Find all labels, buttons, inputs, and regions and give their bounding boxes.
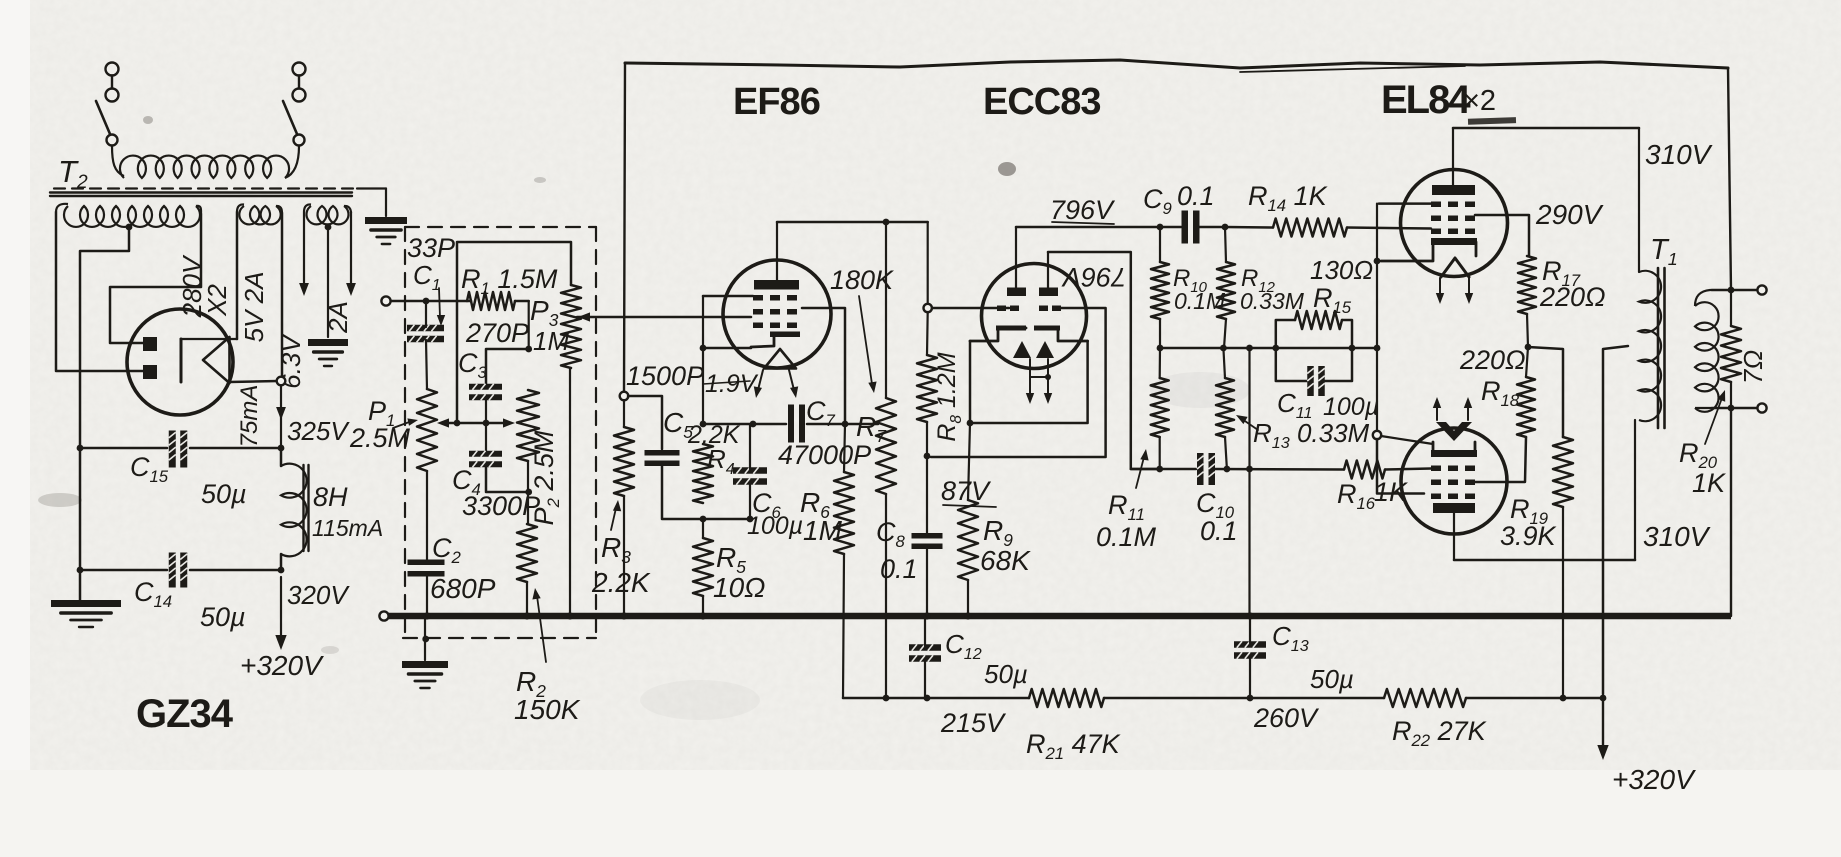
bus junction x703 — [699, 612, 706, 619]
wire R18 top — [1526, 347, 1528, 377]
svg-text:100µ: 100µ — [747, 512, 803, 540]
label R10 — [1173, 265, 1208, 296]
label 260V — [1253, 703, 1320, 733]
wire C8 to bus — [926, 549, 928, 616]
potentiometer P2 2.5M — [517, 390, 539, 461]
label 2.5M (P1) — [349, 423, 411, 453]
T1 secondary winding — [1695, 290, 1719, 412]
feedback node — [620, 392, 629, 401]
label 270P — [465, 318, 529, 348]
node wiper/P3 — [454, 420, 461, 427]
EL84-2 g3 link — [1377, 439, 1424, 494]
label EL84 x2 — [1381, 78, 1496, 122]
6.3V heater feed left — [299, 212, 309, 296]
label R14 1K — [1248, 181, 1328, 215]
resistor R22 27K — [1384, 689, 1466, 707]
svg-text:2.5M: 2.5M — [349, 423, 411, 453]
node R4 top — [700, 421, 707, 428]
label 3.9K — [1500, 521, 1557, 551]
label C12 — [945, 629, 982, 663]
label R11 — [1108, 490, 1145, 524]
svg-text:EL84: EL84 — [1381, 78, 1471, 122]
resistor R9 68K — [958, 500, 978, 580]
wire R11 top — [1159, 348, 1162, 378]
resistor R12 0.33M — [1217, 262, 1235, 319]
bus junction x427 — [423, 612, 430, 619]
label R22 27K — [1392, 716, 1487, 750]
svg-text:47000P: 47000P — [778, 440, 871, 470]
6.3V center tap — [325, 224, 332, 337]
resistor R3 2.2K — [614, 427, 634, 496]
label R3 — [601, 532, 631, 567]
ground stub (box) — [422, 616, 429, 660]
potentiometer P1 2.5M — [417, 389, 437, 471]
label 325V — [287, 416, 350, 446]
output node top — [1728, 287, 1735, 294]
cathode bias line — [1160, 347, 1378, 350]
label P3 — [530, 295, 559, 330]
svg-text:1500P: 1500P — [626, 361, 704, 391]
label R12 — [1241, 265, 1276, 296]
label 0.1 (C10) — [1200, 516, 1238, 546]
capacitor C8 0.1 — [912, 533, 943, 549]
label T2 — [58, 154, 88, 193]
label 68K — [980, 545, 1031, 576]
svg-text:1K: 1K — [1692, 468, 1726, 498]
plate1 to T1 — [1638, 128, 1640, 272]
input wire — [391, 298, 471, 305]
resistor R5 10ohm — [693, 538, 713, 596]
label 0.1M (R10) — [1174, 288, 1226, 314]
svg-text:50µ: 50µ — [200, 602, 246, 632]
svg-text:R14 1K: R14 1K — [1248, 181, 1328, 215]
wire C9 right — [1199, 224, 1229, 231]
label 220ohm (R18) — [1459, 345, 1526, 375]
svg-text:1M: 1M — [533, 326, 569, 356]
svg-text:0.1M: 0.1M — [1096, 522, 1157, 552]
label 0.33M (R12) — [1240, 288, 1305, 314]
label 6.3V — [276, 333, 306, 389]
label R13 0.33M — [1253, 418, 1370, 452]
EL84-1 plate wire — [1452, 128, 1454, 185]
ground (6.3V center) — [308, 339, 348, 366]
svg-text:+320V: +320V — [1612, 764, 1696, 795]
wire screens to R19 — [1528, 347, 1563, 437]
capacitor C12 50u — [909, 644, 941, 662]
svg-text:130Ω: 130Ω — [1310, 255, 1373, 285]
wire P2 to R2 — [525, 461, 532, 524]
EF86 screen wire — [802, 308, 845, 424]
EF86 cathode line — [700, 345, 751, 352]
output node bottom — [1728, 405, 1735, 412]
wire to 7ohm — [1730, 290, 1732, 326]
label C8 — [876, 517, 906, 551]
wire R1 to junction — [515, 301, 529, 349]
wire R6 to HT rail — [843, 554, 844, 698]
label 290V — [1535, 199, 1604, 230]
label 50u (C13) — [1310, 664, 1354, 694]
label 215V — [940, 708, 1007, 738]
796V plate line — [1016, 224, 1181, 231]
bus junction x968 — [964, 612, 971, 619]
box A plate2-grid loop — [1048, 252, 1157, 469]
svg-text:50µ: 50µ — [984, 659, 1028, 689]
wire C3 link — [486, 349, 529, 384]
C13 riser — [1246, 348, 1253, 616]
label smudge — [1468, 117, 1516, 125]
svg-text:50µ: 50µ — [1310, 664, 1354, 694]
label R17 — [1542, 256, 1581, 290]
capacitor C3 270P — [469, 384, 502, 401]
wire R17 bottom — [1527, 314, 1528, 347]
bias line junction x1352 — [1349, 345, 1356, 352]
wire cathode to R9 — [968, 423, 970, 500]
wire screen node to R7 tap — [845, 423, 878, 426]
power pentode V4 EL84 (inverted) — [1401, 422, 1507, 534]
wire C13 to rail — [1249, 657, 1251, 698]
label C11 — [1277, 388, 1313, 422]
EL84-1 screen line — [1475, 215, 1529, 256]
wire C9 to R14 — [1225, 226, 1273, 229]
wire C2 to bus — [426, 574, 428, 616]
node 320V — [278, 567, 285, 574]
arrow C1 label — [437, 288, 445, 326]
svg-text:33P: 33P — [407, 233, 455, 263]
node R4 bottom — [700, 516, 707, 523]
resistor R13 0.33M — [1216, 378, 1234, 437]
wire cathode to 325V node — [276, 386, 286, 448]
label R4 — [707, 444, 735, 478]
svg-text:×2: ×2 — [1463, 85, 1496, 117]
wire wiper to P3 top — [457, 242, 571, 423]
bias line junction x1249.5 — [1246, 345, 1253, 352]
label C14 — [134, 577, 172, 611]
wire P3 to bus — [569, 368, 571, 616]
label 220ohm (R17) — [1539, 282, 1606, 312]
label C6 — [752, 488, 782, 522]
svg-text:290V: 290V — [1535, 199, 1604, 230]
svg-text:0.1: 0.1 — [1200, 516, 1238, 546]
label 1K (R20) — [1692, 468, 1726, 498]
svg-text:50µ: 50µ — [201, 479, 247, 509]
capacitor C2 680P — [408, 560, 445, 577]
label R5 — [716, 542, 746, 577]
transformer T2 core — [50, 189, 357, 197]
dashed screen box — [403, 227, 596, 638]
capacitor C7 47000P — [788, 405, 805, 443]
label 115mA — [312, 515, 383, 541]
label R1 1.5M — [461, 264, 558, 298]
capacitor C1 33P — [407, 325, 444, 343]
label 50u (C14) — [200, 602, 246, 632]
T1 center tap — [1603, 346, 1628, 694]
resistor R21 47K — [1029, 689, 1104, 707]
output terminal top — [1731, 285, 1767, 294]
rail junction 260V — [1247, 695, 1254, 702]
svg-text:75mA: 75mA — [236, 385, 263, 448]
ECC83 heater arrows — [1026, 359, 1052, 404]
EL84-2 cathode link — [1381, 436, 1433, 444]
resistor R18 220ohm — [1517, 377, 1535, 437]
label C3 — [458, 348, 488, 382]
node 325V — [278, 445, 285, 452]
box right edge — [1728, 68, 1731, 290]
node R1/C3/P2 — [525, 346, 532, 353]
+320V arrow (right) — [1597, 698, 1608, 760]
wire R8node to C8 — [926, 457, 928, 533]
ground (core) — [365, 217, 407, 244]
EL84-2 plate wire — [1453, 513, 1455, 560]
wire C7 to screen node — [807, 421, 848, 428]
label R20 — [1679, 438, 1718, 472]
EL84-1 heater arrows — [1436, 278, 1473, 304]
capacitor C5 1500P — [645, 450, 680, 466]
label 796V — [1050, 195, 1116, 225]
wiper line arrows — [437, 418, 515, 427]
HT rail 215V-260V segment — [843, 697, 1603, 700]
feedback line left (box edge) — [624, 63, 625, 392]
resistor R6 1M — [834, 472, 854, 554]
wire R7 to HT rail — [885, 494, 887, 698]
wire core to ground — [357, 189, 386, 217]
resistor R10 0.1M — [1151, 262, 1169, 319]
bus junction x927 — [923, 612, 930, 619]
ECC83 cathode box — [970, 341, 1088, 423]
label R7 — [856, 411, 887, 446]
wire R9 to bus — [967, 580, 969, 616]
cathode tie vertical — [1374, 204, 1381, 431]
main ground bus — [389, 613, 1731, 620]
label 2.2K (R4) — [687, 421, 741, 449]
bus junction x1250 — [1246, 612, 1253, 619]
svg-text:320V: 320V — [287, 580, 350, 610]
label 8H — [313, 482, 348, 512]
grid2 drive line — [1131, 466, 1196, 473]
bias line junction x1223.4 — [1220, 345, 1227, 352]
resistor R17 220ohm — [1518, 256, 1536, 314]
EF86 grid line from P3 — [577, 312, 751, 321]
EL84-1 g3 line — [1379, 202, 1431, 205]
svg-text:0.1M: 0.1M — [1174, 288, 1226, 314]
rail junction +320V — [1600, 695, 1607, 702]
wire C15 to ground rail — [77, 445, 167, 452]
svg-text:68K: 68K — [980, 545, 1031, 576]
bus junction x527 — [523, 612, 530, 619]
capacitor C9 0.1 — [1182, 211, 1200, 244]
arrow R2 label — [532, 588, 546, 662]
bus junction x624 — [620, 612, 627, 619]
wire R6 top — [844, 424, 845, 472]
resistor R11 0.1M — [1151, 378, 1169, 437]
wire R18 to grid2 — [1475, 437, 1526, 482]
capacitor C10 0.1 — [1197, 453, 1215, 485]
EF86 plate wire — [776, 222, 778, 280]
transformer T2 6.3V winding — [304, 204, 351, 224]
bus input terminal — [379, 611, 388, 620]
label 7ohm (rotated) — [1738, 350, 1768, 384]
svg-text:3.9K: 3.9K — [1500, 521, 1557, 551]
svg-text:325V: 325V — [287, 416, 350, 446]
svg-text:GZ34: GZ34 — [136, 692, 234, 736]
wire output gnd to bus — [1730, 408, 1732, 616]
wire C12 to rail — [924, 660, 926, 698]
label C15 — [130, 452, 169, 486]
label 1500P — [626, 361, 704, 391]
wire R8 bottom — [926, 422, 928, 455]
wire node to R3 — [623, 400, 625, 427]
choke 8H 115mA — [281, 464, 309, 557]
svg-text:115mA: 115mA — [312, 515, 383, 541]
label +320V (left) — [240, 650, 324, 681]
node screens — [1525, 344, 1532, 351]
label 0.1 (C8) — [880, 554, 918, 584]
label R21 47K — [1026, 729, 1121, 763]
EL84-2 plate line — [1454, 559, 1635, 562]
resistor R16 1K — [1344, 461, 1385, 479]
svg-text:5V 2A: 5V 2A — [239, 272, 269, 343]
wire wiper to C4 — [485, 423, 487, 451]
label 0.1 (C9) — [1177, 181, 1215, 211]
label R2 — [516, 666, 546, 701]
node R8 bottom — [924, 453, 931, 460]
label 280V X2 — [177, 254, 232, 318]
label C2 — [432, 533, 462, 567]
potentiometer P3 1M — [561, 285, 581, 368]
svg-text:215V: 215V — [940, 708, 1007, 738]
svg-text:270P: 270P — [465, 318, 529, 348]
label C7 — [806, 396, 836, 430]
label R19 — [1510, 494, 1548, 528]
label C5 — [663, 407, 693, 442]
paper smudges (decor) — [38, 116, 1250, 720]
mains switch S1/S2 — [96, 63, 306, 146]
label 3300P — [462, 491, 540, 521]
svg-text:260V: 260V — [1253, 703, 1320, 733]
svg-text:R22 27K: R22 27K — [1392, 716, 1487, 750]
wire HV left to plate — [56, 212, 143, 371]
wire to C7 — [703, 421, 786, 428]
EL84-2 heater arrows — [1433, 397, 1472, 420]
label C9 — [1143, 184, 1172, 218]
bias line junction x1160 — [1157, 345, 1164, 352]
EF86 g3 line — [703, 295, 753, 298]
capacitor C15 50u — [169, 431, 188, 468]
cathode output node 325V — [277, 377, 286, 386]
node EF86/ECC83 grid — [924, 304, 932, 312]
wire C10 to R16 — [1214, 466, 1344, 473]
svg-text:+320V: +320V — [240, 650, 324, 681]
EF86 plate line — [777, 219, 928, 226]
label C13 — [1272, 621, 1309, 655]
ECC83 left plate wire — [1015, 227, 1017, 288]
wire R7 top — [885, 222, 887, 398]
label 33P — [407, 233, 455, 263]
label 680P — [430, 573, 496, 604]
label ECC83 — [983, 81, 1101, 123]
pentode V1 EF86 — [723, 260, 831, 369]
label R9 — [983, 515, 1013, 550]
T1 core — [1658, 268, 1665, 428]
label 100u (C6) — [747, 512, 803, 540]
EF86 g3-cathode vertical — [702, 296, 704, 424]
transformer T2 5V winding — [237, 204, 282, 224]
rail junction C12 — [924, 695, 931, 702]
label 150K — [514, 694, 581, 725]
label 0.1M (R11) — [1096, 522, 1157, 552]
wire R8 top — [926, 312, 929, 355]
wire P1 to C2 — [426, 471, 428, 562]
bias line junction x1377 — [1374, 345, 1381, 352]
wire C6 bottom — [703, 483, 753, 523]
resistor R1 1.5M — [467, 292, 515, 310]
label 1M (R6) — [803, 515, 843, 546]
wire R13 top — [1223, 348, 1225, 378]
wire node to C15 — [190, 447, 281, 450]
amp box top edge — [625, 60, 1728, 72]
label 10ohm — [713, 572, 765, 603]
label 130ohm — [1310, 255, 1373, 285]
capacitor C4 3300P — [469, 451, 502, 468]
label R16 1K — [1337, 477, 1408, 513]
svg-text:680P: 680P — [430, 573, 496, 604]
arrow 180K label — [859, 296, 877, 393]
capacitor C11 100u — [1276, 348, 1352, 396]
svg-text:R13 0.33M: R13 0.33M — [1253, 418, 1370, 452]
EF86 heater arrows — [754, 370, 798, 398]
wire bus to C13 — [1249, 616, 1251, 643]
HV center tap wire — [80, 224, 132, 600]
label 196V (inverted) — [1060, 262, 1126, 292]
svg-text:8H: 8H — [313, 482, 348, 512]
svg-text:220Ω: 220Ω — [1539, 282, 1606, 312]
label 180K — [830, 265, 894, 295]
svg-text:ECC83: ECC83 — [983, 81, 1101, 123]
wire node to C14 — [190, 569, 281, 572]
grid2 return loop — [931, 308, 1106, 457]
ECC83 grid1 line — [932, 307, 1009, 310]
wire C1 to P1 — [426, 340, 427, 389]
label P2 2.5M (rotated) — [529, 430, 563, 525]
wire R12 bottom — [1224, 319, 1226, 348]
wire C4 to P2 bottom — [486, 467, 529, 493]
svg-text:2.2K: 2.2K — [591, 567, 651, 598]
label R8 1.2M (rotated) — [933, 352, 965, 441]
arrow P1 label — [393, 418, 418, 428]
label 50u (C12) — [984, 659, 1028, 689]
svg-text:EF86: EF86 — [733, 81, 820, 123]
wire R2 to bus — [526, 582, 528, 616]
secondary to terminals — [1712, 290, 1731, 408]
ECC83 right plate wire — [1047, 252, 1049, 288]
label 47000P — [778, 440, 871, 470]
label T1 — [1650, 234, 1678, 269]
arrow R3 label — [611, 500, 621, 530]
svg-text:R21 47K: R21 47K — [1026, 729, 1121, 763]
label 1.9V — [703, 370, 759, 398]
wire choke bottom — [280, 554, 283, 570]
node cathode/R9 — [967, 420, 974, 427]
transformer T2 primary winding — [112, 146, 299, 178]
wire R12 top — [1225, 227, 1226, 262]
power pentode V3 EL84 — [1381, 170, 1508, 278]
svg-text:0.1: 0.1 — [1177, 181, 1215, 211]
resistor R15 130ohm — [1276, 311, 1352, 348]
svg-text:R8 1.2M: R8 1.2M — [933, 352, 965, 441]
double triode V2 ECC83 — [970, 264, 1088, 369]
svg-text:796V: 796V — [1050, 195, 1116, 225]
resistor R7 180K — [876, 398, 896, 494]
label 75mA — [236, 385, 263, 448]
